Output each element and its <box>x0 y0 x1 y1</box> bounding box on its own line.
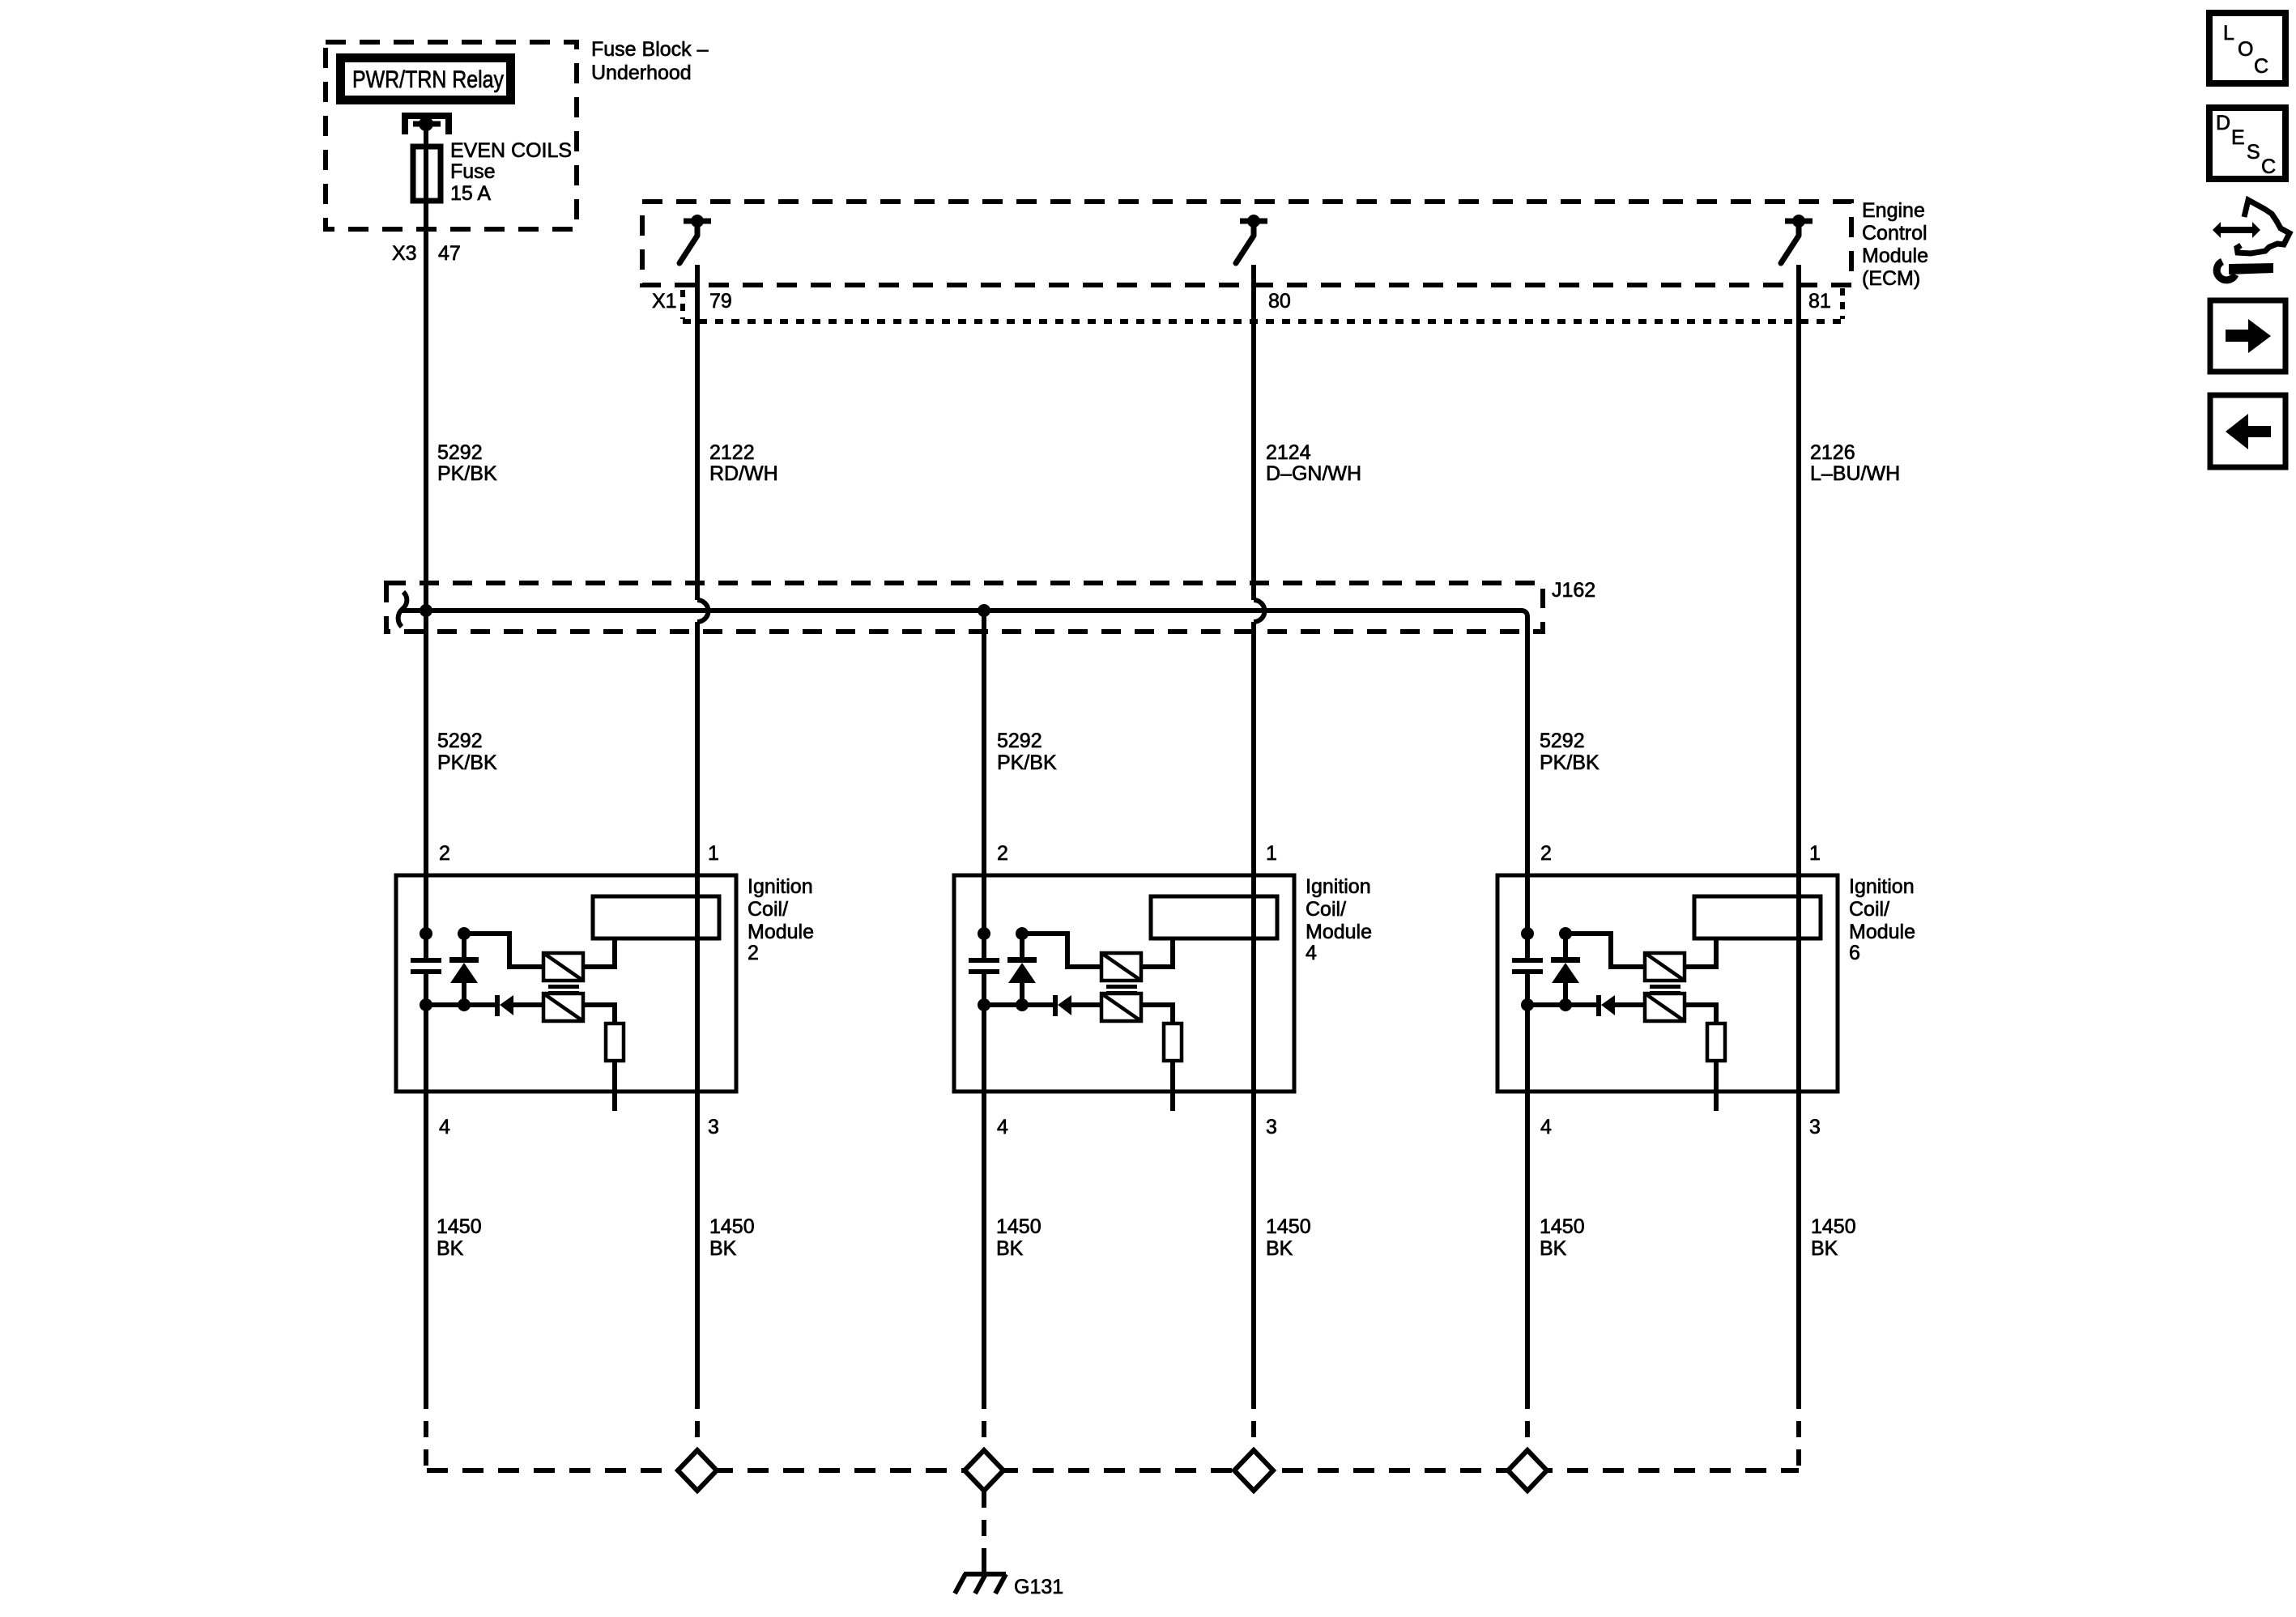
svg-text:Control: Control <box>1862 222 1928 245</box>
svg-text:PWR/TRN Relay: PWR/TRN Relay <box>352 66 504 93</box>
svg-text:2124: 2124 <box>1266 441 1311 464</box>
svg-text:Fuse: Fuse <box>450 160 496 183</box>
svg-text:2126: 2126 <box>1810 441 1855 464</box>
svg-text:1450: 1450 <box>1266 1215 1311 1238</box>
svg-text:15 A: 15 A <box>450 182 491 205</box>
svg-text:G131: G131 <box>1014 1576 1063 1598</box>
svg-text:PK/BK: PK/BK <box>1540 751 1600 774</box>
svg-text:L–BU/WH: L–BU/WH <box>1810 462 1900 485</box>
svg-text:5292: 5292 <box>1540 730 1585 752</box>
svg-text:1450: 1450 <box>996 1215 1042 1238</box>
svg-text:1450: 1450 <box>709 1215 755 1238</box>
svg-text:EVEN COILS: EVEN COILS <box>450 139 572 162</box>
svg-text:Module: Module <box>1862 245 1928 267</box>
svg-text:X1: X1 <box>652 290 677 313</box>
svg-text:4: 4 <box>1306 942 1317 964</box>
svg-text:80: 80 <box>1268 290 1291 313</box>
svg-text:S: S <box>2247 141 2260 164</box>
svg-text:1450: 1450 <box>1540 1215 1585 1238</box>
svg-text:PK/BK: PK/BK <box>437 751 497 774</box>
svg-text:C: C <box>2254 55 2268 78</box>
svg-text:81: 81 <box>1808 290 1831 313</box>
svg-text:5292: 5292 <box>437 730 483 752</box>
svg-text:BK: BK <box>437 1237 464 1260</box>
svg-text:(ECM): (ECM) <box>1862 267 1920 290</box>
svg-text:PK/BK: PK/BK <box>997 751 1057 774</box>
svg-text:Underhood: Underhood <box>591 62 692 84</box>
svg-text:BK: BK <box>1266 1237 1293 1260</box>
svg-text:O: O <box>2238 38 2253 61</box>
svg-text:2122: 2122 <box>709 441 755 464</box>
svg-text:D–GN/WH: D–GN/WH <box>1266 462 1361 485</box>
svg-text:PK/BK: PK/BK <box>437 462 497 485</box>
svg-text:Fuse Block –: Fuse Block – <box>591 38 709 61</box>
svg-text:Engine: Engine <box>1862 199 1925 222</box>
svg-text:1450: 1450 <box>437 1215 482 1238</box>
svg-text:BK: BK <box>1811 1237 1838 1260</box>
svg-text:BK: BK <box>996 1237 1024 1260</box>
svg-text:J162: J162 <box>1552 579 1595 602</box>
svg-text:RD/WH: RD/WH <box>709 462 778 485</box>
svg-text:BK: BK <box>1540 1237 1567 1260</box>
svg-text:5292: 5292 <box>997 730 1042 752</box>
svg-text:X3: X3 <box>392 242 417 265</box>
svg-text:C: C <box>2261 155 2276 178</box>
svg-text:47: 47 <box>438 242 461 265</box>
svg-text:5292: 5292 <box>437 441 483 464</box>
svg-text:79: 79 <box>709 290 732 313</box>
svg-text:E: E <box>2231 126 2245 149</box>
svg-text:1450: 1450 <box>1811 1215 1856 1238</box>
svg-text:D: D <box>2216 112 2230 134</box>
svg-text:6: 6 <box>1849 942 1860 964</box>
svg-text:2: 2 <box>748 942 759 964</box>
svg-text:BK: BK <box>709 1237 737 1260</box>
svg-text:L: L <box>2223 22 2234 45</box>
